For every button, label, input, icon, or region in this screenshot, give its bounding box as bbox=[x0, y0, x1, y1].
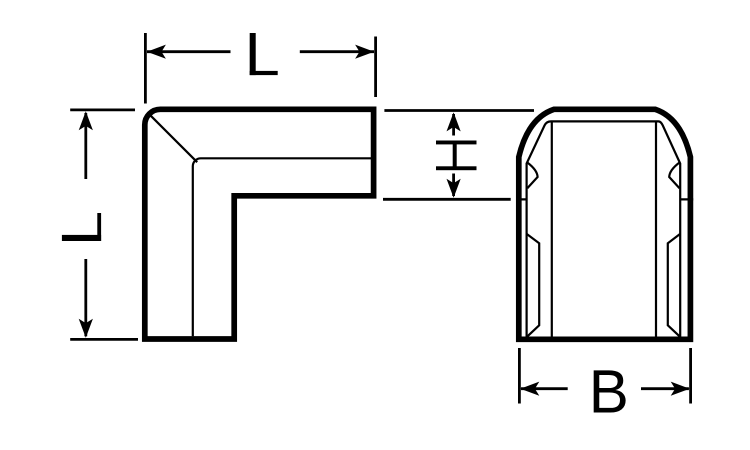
svg-text:B: B bbox=[589, 357, 629, 426]
